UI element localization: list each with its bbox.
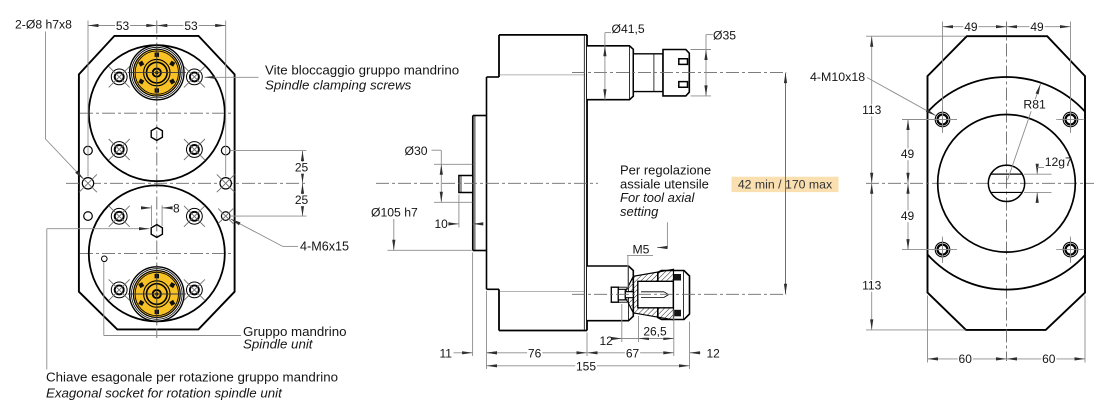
M6 hole right-top [221, 146, 230, 155]
upper nut wrench slot top [679, 59, 688, 65]
dimension 76 [486, 291, 488, 369]
svg-text:For tool axial: For tool axial [620, 190, 696, 205]
hex-key access hole [102, 256, 108, 262]
intermediate disc [487, 76, 500, 78]
collet bore [641, 291, 664, 293]
M10 hole top-left [931, 108, 955, 132]
dimension 49/49 top [942, 22, 944, 134]
M10 hole bottom-left [931, 238, 955, 262]
svg-text:setting: setting [620, 204, 659, 219]
R81 radius leader [1008, 84, 1041, 180]
body inner face line [583, 36, 585, 330]
dowel hole Ø8 left [79, 174, 97, 192]
collet body cylinder [638, 281, 674, 308]
dimension text 25 upper [294, 162, 309, 174]
dimension text 25 lower [294, 194, 309, 206]
screw lower-unit bottom-left (M6 cap screw with cross mark) [109, 279, 130, 300]
svg-text:155: 155 [576, 359, 596, 373]
svg-text:12: 12 [600, 334, 614, 348]
lower hex socket [151, 225, 162, 238]
Ø105 spigot circle [938, 115, 1076, 253]
lower spindle: six lock squares [138, 274, 175, 314]
leader for Chiave esagonale [46, 229, 48, 370]
dowel hole Ø8 right [217, 174, 235, 192]
leader for 2-Ø8 h7x8 [45, 32, 47, 140]
R81 housing circle (clipped) [900, 77, 1104, 290]
svg-text:60: 60 [1042, 352, 1056, 366]
dimension 42 min / 170 max [732, 177, 839, 192]
right view horizontal centreline [866, 182, 1094, 184]
svg-text:Ø41,5: Ø41,5 [612, 22, 645, 36]
M6 hole left-bottom [84, 212, 93, 221]
lower nut chamfer edge [683, 271, 685, 320]
upper collet nut Ø35 [663, 50, 689, 96]
svg-text:113: 113 [862, 278, 881, 292]
lower spindle-unit bore circle [89, 185, 225, 321]
dimension 8 across hex socket [151, 205, 153, 226]
svg-text:49: 49 [1030, 20, 1044, 34]
lower spindle: gold clamping ring [133, 271, 180, 318]
svg-text:113: 113 [862, 103, 881, 117]
svg-text:2-Ø8 h7x8: 2-Ø8 h7x8 [15, 18, 72, 32]
dimension 67 [587, 352, 674, 354]
12g7 bore flats [991, 173, 1022, 175]
leader from note to M5 [666, 222, 668, 247]
M10 hole bottom-right [1059, 238, 1083, 262]
svg-text:25: 25 [295, 160, 309, 174]
upper spindle: inner bearing rings [144, 59, 170, 85]
svg-text:8: 8 [173, 201, 180, 215]
lower output boss Ø41.5 [587, 266, 633, 321]
leader for 4-M10x18 [867, 78, 936, 116]
svg-text:49: 49 [964, 20, 978, 34]
leader for Gruppo mandrino [104, 335, 241, 337]
upper spindle: crosshair [128, 72, 186, 74]
M5 grub screw [611, 287, 618, 302]
lower spindle: outer flange rings [130, 267, 184, 321]
boss recess edges [611, 286, 628, 288]
screw upper-unit bottom-right (M6 cap screw with cross mark) [184, 139, 205, 160]
svg-text:60: 60 [959, 352, 973, 366]
lower spindle: centre pilot [153, 290, 161, 298]
svg-text:76: 76 [528, 346, 542, 360]
pilot spigot Ø30 [459, 176, 473, 193]
upper output boss Ø41.5 [587, 46, 633, 100]
main body block [499, 35, 587, 331]
dimension 12g7 [1024, 173, 1052, 175]
screw lower-unit top-right (M6 cap screw with cross mark) [184, 206, 205, 227]
svg-text:Spindle unit: Spindle unit [243, 337, 314, 352]
middle view: body mid centreline [376, 182, 598, 184]
nut groove mark top [674, 274, 681, 281]
svg-text:25: 25 [295, 193, 309, 207]
svg-text:Exagonal socket for rotation s: Exagonal socket for rotation spindle uni… [46, 385, 283, 400]
bottom hole centre ticks [942, 237, 944, 264]
screw lower-unit top-left (M6 cap screw with cross mark) [109, 206, 130, 227]
dimension chain 12 / 26,5 [621, 304, 623, 342]
lower spindle: inner bearing rings [144, 281, 170, 307]
svg-text:4-M6x15: 4-M6x15 [300, 239, 349, 253]
svg-text:R81: R81 [1023, 98, 1046, 112]
left view vertical centreline [156, 21, 158, 339]
lower spindle-unit horizontal centreline [80, 252, 233, 254]
centre bore circle [988, 165, 1024, 201]
svg-text:11: 11 [440, 347, 453, 361]
svg-text:Ø35: Ø35 [713, 29, 736, 43]
left view: octagonal plate outline [79, 36, 235, 330]
svg-text:12g7: 12g7 [1045, 155, 1072, 169]
svg-text:Ø105 h7: Ø105 h7 [371, 205, 418, 219]
dimension line 53/53 [88, 25, 226, 27]
leader for 4-M6x15 [283, 245, 298, 247]
screw upper-unit top-right (M6 cap screw with cross mark) [184, 66, 205, 87]
svg-text:Ø30: Ø30 [405, 144, 428, 158]
lower spindle: crosshair [128, 293, 186, 295]
upper hex socket [151, 128, 162, 141]
screw lower-unit bottom-right (M6 cap screw with cross mark) [184, 279, 205, 300]
svg-text:53: 53 [116, 19, 130, 33]
svg-text:10: 10 [435, 217, 449, 231]
svg-text:12: 12 [707, 346, 721, 360]
svg-text:Chiave esagonale per rotazione: Chiave esagonale per rotazione gruppo ma… [46, 369, 338, 384]
screw upper-unit bottom-left (M6 cap screw with cross mark) [109, 139, 130, 160]
upper spindle: six lock squares [138, 53, 175, 93]
svg-text:53: 53 [184, 19, 198, 33]
upper spindle neck [633, 54, 663, 92]
upper spindle: gold clamping ring [133, 49, 180, 96]
middle view: upper spindle axis centreline [572, 72, 786, 74]
svg-text:26,5: 26,5 [643, 324, 667, 338]
dimension line 25/25 [302, 151, 304, 217]
body interior step edge top [500, 74, 584, 76]
svg-text:67: 67 [626, 346, 640, 360]
right view vertical centreline [1006, 22, 1008, 362]
nut groove mark bottom [674, 310, 681, 317]
dimension 49/49 left inner [902, 119, 957, 121]
dimension 25/25 extension lines [231, 150, 307, 152]
body interior step edge bottom [500, 291, 584, 293]
dimension text 53 right [184, 20, 199, 32]
M6 hole left-top [84, 146, 93, 155]
upper nut wrench slot bottom [679, 82, 688, 88]
dimension 53/53 extension lines [87, 21, 89, 177]
screw upper-unit top-left (M6 cap screw with cross mark) [109, 66, 130, 87]
dimension 155 [487, 365, 690, 367]
dimension 60/60 bottom [927, 296, 929, 363]
middle view: lower spindle axis centreline [572, 293, 786, 295]
upper spindle-unit horizontal centreline [80, 112, 233, 114]
svg-text:49: 49 [901, 147, 915, 161]
svg-text:assiale utensile: assiale utensile [620, 176, 709, 191]
svg-text:M5: M5 [633, 243, 650, 257]
M10 hole top-right [1059, 108, 1083, 132]
upper spindle: outer flange rings [130, 45, 184, 99]
leader for spindle clamping screws [205, 76, 259, 78]
svg-text:49: 49 [901, 209, 915, 223]
upper spindle-unit bore circle [89, 45, 225, 181]
svg-text:4-M10x18: 4-M10x18 [810, 70, 865, 84]
lower collet nut [658, 271, 690, 320]
dimension text 53 left [115, 20, 130, 32]
dimension 113/113 left [866, 35, 966, 37]
flange Ø105 h7 [473, 115, 487, 117]
dimension 12 right [689, 322, 691, 370]
label R81 [1022, 99, 1044, 111]
svg-text:Vite bloccaggio gruppo mandrin: Vite bloccaggio gruppo mandrino [265, 63, 459, 78]
upper spindle: centre pilot [153, 69, 161, 77]
svg-text:42 min / 170 max: 42 min / 170 max [738, 177, 833, 191]
svg-text:Spindle clamping screws: Spindle clamping screws [265, 78, 412, 93]
M6 hole right-bottom [218, 209, 233, 224]
left view global horizontal centreline [66, 182, 308, 184]
